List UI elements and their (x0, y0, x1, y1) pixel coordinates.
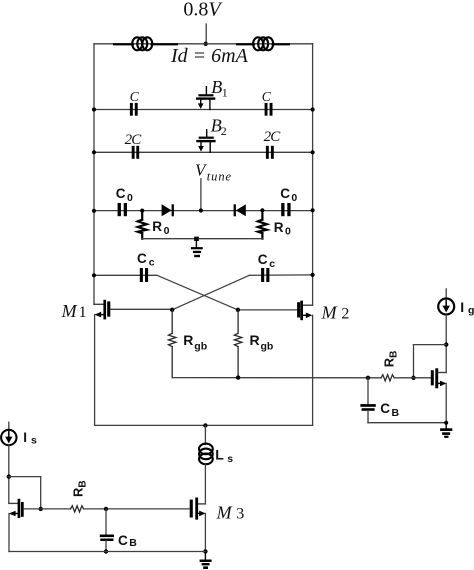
svg-text:C: C (258, 252, 268, 267)
svg-text:0: 0 (285, 225, 291, 237)
node gate cross left (170, 308, 174, 312)
svg-text:B: B (392, 407, 400, 419)
svg-text:0.8V: 0.8V (183, 0, 223, 20)
wire Is to M4 drain (8, 445, 10, 503)
svg-text:R: R (152, 219, 162, 234)
svg-text:M: M (216, 502, 233, 522)
svg-text:2C: 2C (125, 132, 143, 148)
resistor RB right (381, 375, 394, 381)
wire RB to M3 gate (84, 508, 190, 510)
capacitor C0 right (281, 203, 290, 216)
diode D1 (162, 204, 174, 216)
node M4 gate junction (39, 507, 43, 511)
transistor M4 (9, 499, 24, 552)
wire loop top (9, 476, 41, 478)
node CB left bottom (104, 549, 108, 553)
svg-text:s: s (227, 453, 233, 465)
svg-text:Id = 6mA: Id = 6mA (170, 45, 249, 67)
node buffer ground (444, 421, 448, 425)
wire cross right-to-left (172, 275, 249, 310)
capacitor 2C right (266, 146, 274, 159)
svg-text:RB: RB (381, 351, 399, 368)
transistor M5 buffer (431, 368, 447, 422)
svg-text:R: R (183, 332, 193, 348)
svg-text:gb: gb (261, 340, 274, 352)
svg-text:C: C (262, 89, 272, 104)
node R0 right top (260, 208, 264, 212)
wire box bottom (95, 424, 313, 426)
svg-text:C: C (137, 251, 147, 266)
node gate cross right (236, 308, 240, 312)
capacitor Cc left (140, 268, 148, 282)
wire R0 bottom (142, 238, 262, 240)
svg-text:M: M (61, 301, 78, 321)
capacitor C right (265, 103, 273, 116)
ground M3 (200, 551, 212, 569)
inductor L1 (114, 37, 177, 50)
wire Vtune stub (200, 179, 202, 211)
capacitor C left (130, 103, 138, 116)
inductor L2 (237, 37, 289, 50)
node supply junction (204, 42, 208, 46)
wire cross left-to-right (157, 275, 238, 310)
wire row C0 (94, 210, 313, 212)
svg-text:0: 0 (291, 192, 297, 204)
svg-text:C: C (380, 401, 390, 416)
wire top rail (94, 43, 313, 45)
svg-text:B: B (129, 537, 137, 549)
svg-text:1: 1 (79, 304, 87, 321)
node R0 left top (140, 209, 144, 213)
node Vtune junction (199, 208, 203, 212)
wire gate M2 (238, 309, 297, 311)
wire bias bottom left (9, 551, 205, 553)
current source Ig (438, 289, 454, 315)
svg-text:B: B (211, 77, 222, 97)
svg-text:c: c (269, 258, 275, 270)
node CB left top (104, 507, 108, 511)
wire gate row bias left (24, 508, 71, 510)
transistor M2 (297, 301, 313, 426)
wire left rail (93, 44, 95, 305)
node row 2C right (311, 150, 315, 154)
ground buffer (440, 423, 452, 438)
wire row Cc right (249, 274, 312, 276)
svg-text:tune: tune (207, 169, 232, 183)
svg-text:C: C (130, 89, 140, 104)
wire row 2C (94, 151, 313, 153)
node row C right (311, 107, 315, 111)
wire right rail (312, 44, 314, 305)
wire row Cc left (94, 274, 157, 276)
svg-text:R: R (250, 332, 260, 348)
node row C0 left rail (92, 209, 96, 213)
node CB right top (366, 376, 370, 380)
capacitor 2C left (132, 146, 140, 159)
resistor RB left (71, 506, 84, 512)
varactor B2 (196, 130, 215, 153)
node M3 source (203, 549, 207, 553)
node Ls top (203, 423, 207, 427)
current source Is (1, 422, 16, 445)
node row C0 right rail (311, 208, 315, 212)
svg-text:g: g (468, 305, 474, 317)
diode D2 (234, 204, 246, 216)
svg-text:3: 3 (236, 505, 244, 522)
svg-text:2: 2 (341, 305, 349, 322)
varactor B1 (196, 87, 215, 110)
transistor M1 (94, 300, 110, 426)
svg-text:0: 0 (164, 225, 170, 237)
node row Cc left (92, 273, 96, 277)
svg-text:2: 2 (221, 124, 227, 138)
ground center (191, 237, 203, 258)
node buffer gate junction (411, 376, 415, 380)
resistor R0 left (138, 211, 147, 239)
capacitor Cc right (261, 268, 269, 282)
svg-text:gb: gb (194, 340, 207, 352)
node row C left (92, 107, 96, 111)
svg-text:C: C (116, 186, 126, 201)
svg-text:c: c (149, 257, 155, 269)
node row Cc right (311, 273, 315, 277)
wire gate M1 (110, 308, 172, 310)
node row 2C left (92, 150, 96, 154)
svg-text:L: L (215, 446, 224, 462)
svg-text:I: I (23, 430, 27, 445)
capacitor CB right (360, 378, 375, 423)
wire buffer source bottom (368, 422, 446, 424)
svg-text:RB: RB (70, 480, 88, 497)
capacitor C0 left (118, 203, 127, 216)
svg-text:s: s (31, 435, 37, 447)
wire Rgb bottom to buffer (172, 377, 381, 379)
svg-text:R: R (274, 220, 284, 235)
resistor Rgb left (169, 310, 176, 378)
capacitor CB left (100, 509, 114, 552)
wire buffer loop top (414, 344, 447, 346)
wire buffer loop left (413, 345, 415, 378)
svg-text:M: M (321, 302, 338, 322)
resistor R0 right (258, 210, 267, 238)
wire row C (94, 109, 313, 111)
svg-text:I: I (460, 299, 464, 315)
wire Ig to buffer drain (445, 315, 447, 373)
svg-text:2C: 2C (264, 129, 282, 145)
svg-text:C: C (118, 533, 128, 548)
transistor M3 (190, 498, 206, 552)
svg-text:1: 1 (222, 86, 228, 100)
node Rgb right bottom (236, 375, 240, 379)
wire RB right to gate (394, 377, 431, 379)
node M4 drain-gate loop (7, 474, 11, 478)
svg-text:C: C (280, 186, 290, 201)
inductor Ls (199, 426, 213, 504)
wire supply stub (205, 24, 207, 44)
node buffer drain loop (444, 342, 448, 346)
svg-text:0: 0 (127, 192, 133, 204)
wire loop right (40, 477, 42, 509)
resistor Rgb right (234, 310, 241, 378)
